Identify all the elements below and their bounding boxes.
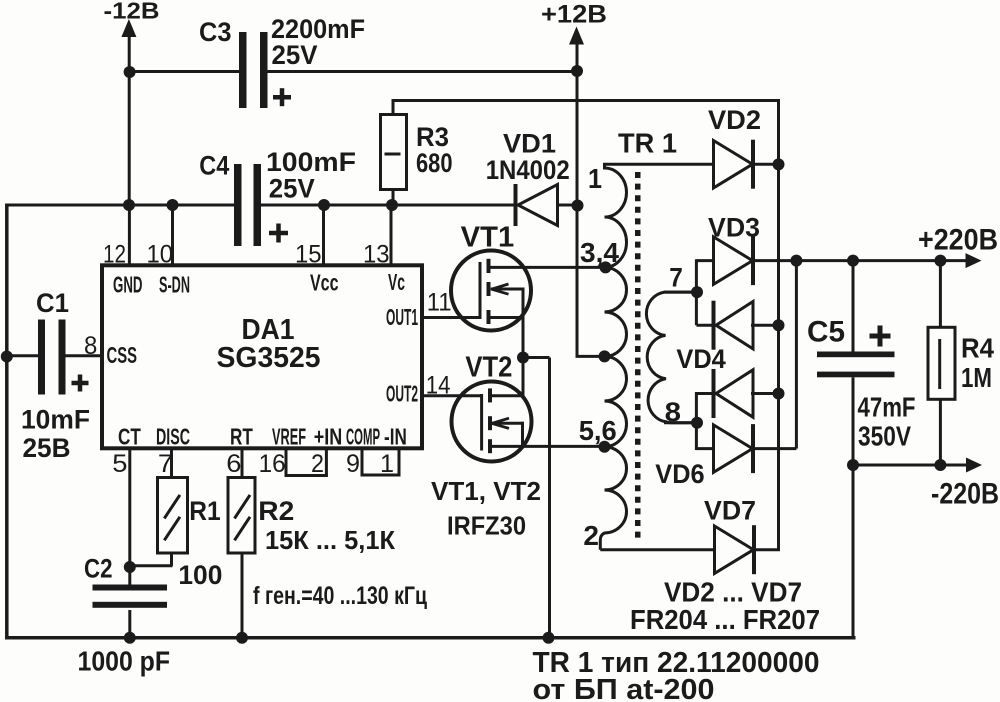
svg-text:-12В: -12В [104,0,160,24]
svg-text:RT: RT [230,424,253,450]
svg-text:-220В: -220В [931,478,999,511]
svg-text:8: 8 [665,397,681,427]
svg-text:OUT1: OUT1 [386,304,418,330]
svg-text:1: 1 [380,450,394,478]
svg-text:15: 15 [295,240,322,268]
svg-text:C1: C1 [36,288,69,318]
svg-text:VT1: VT1 [461,222,515,254]
svg-text:+IN: +IN [314,424,343,450]
svg-text:2: 2 [311,450,324,478]
svg-text:8: 8 [84,332,97,360]
svg-text:CT: CT [118,424,141,450]
svg-text:1: 1 [588,163,602,194]
svg-text:11: 11 [427,289,452,317]
svg-text:Vc: Vc [388,269,405,295]
svg-text:VREF: VREF [272,424,306,450]
svg-text:350V: 350V [858,421,911,452]
svg-text:25V: 25V [269,174,315,204]
svg-text:+12В: +12В [541,1,607,29]
svg-text:5: 5 [112,450,127,478]
svg-text:C3: C3 [199,17,232,47]
svg-text:100: 100 [178,560,222,590]
svg-text:680: 680 [416,148,453,178]
svg-text:TR 1: TR 1 [618,128,677,159]
svg-text:47mF: 47mF [858,392,916,423]
svg-text:25V: 25V [272,40,318,70]
svg-text:IRFZ30: IRFZ30 [447,511,526,541]
svg-text:VD2: VD2 [708,105,761,135]
svg-text:9: 9 [346,450,360,478]
svg-text:FR204 ... FR207: FR204 ... FR207 [630,604,820,635]
svg-text:16: 16 [259,450,286,478]
svg-text:1N4002: 1N4002 [486,155,570,185]
svg-text:C2: C2 [84,554,113,584]
svg-text:2: 2 [583,520,599,551]
svg-text:C5: C5 [807,316,845,349]
svg-text:1M: 1M [961,362,992,393]
svg-text:13: 13 [363,240,390,268]
svg-text:C4: C4 [199,150,229,180]
svg-text:15К ... 5,1К: 15К ... 5,1К [265,525,395,555]
svg-text:S-DN: S-DN [159,272,190,298]
svg-text:+220В: +220В [918,224,998,257]
svg-text:6: 6 [226,450,241,478]
svg-text:DISC: DISC [156,424,190,450]
svg-text:VD3: VD3 [708,213,760,243]
svg-text:VD2 ... VD7: VD2 ... VD7 [664,577,802,608]
svg-text:DA1: DA1 [242,314,295,346]
svg-text:7: 7 [669,263,683,293]
svg-text:7: 7 [158,450,173,478]
svg-text:VT1, VT2: VT1, VT2 [431,476,541,506]
svg-text:OUT2: OUT2 [386,381,418,407]
svg-text:1000 pF: 1000 pF [78,646,171,677]
svg-text:12: 12 [103,240,126,268]
svg-text:f ген.=40 ...130 кГц: f ген.=40 ...130 кГц [253,582,427,610]
svg-text:10mF: 10mF [21,405,90,435]
svg-text:Vcc: Vcc [310,270,339,296]
svg-text:-IN: -IN [384,424,407,450]
svg-text:14: 14 [426,371,451,399]
svg-text:R2: R2 [258,496,294,526]
svg-text:VD7: VD7 [704,496,756,526]
svg-text:от БП at-200: от БП at-200 [533,674,715,702]
svg-text:GND: GND [113,272,143,298]
svg-text:10: 10 [147,240,174,268]
svg-text:VD6: VD6 [655,459,704,489]
svg-text:5,6: 5,6 [579,415,617,446]
svg-text:VD4: VD4 [676,344,725,374]
svg-text:VT2: VT2 [465,352,512,384]
svg-text:25B: 25B [23,433,71,463]
svg-text:COMP: COMP [346,424,380,450]
svg-text:SG3525: SG3525 [217,342,321,374]
svg-text:R1: R1 [189,496,220,526]
svg-text:100mF: 100mF [266,147,356,177]
svg-text:3,4: 3,4 [580,237,619,268]
svg-text:R4: R4 [961,333,994,364]
svg-text:CSS: CSS [107,342,138,368]
